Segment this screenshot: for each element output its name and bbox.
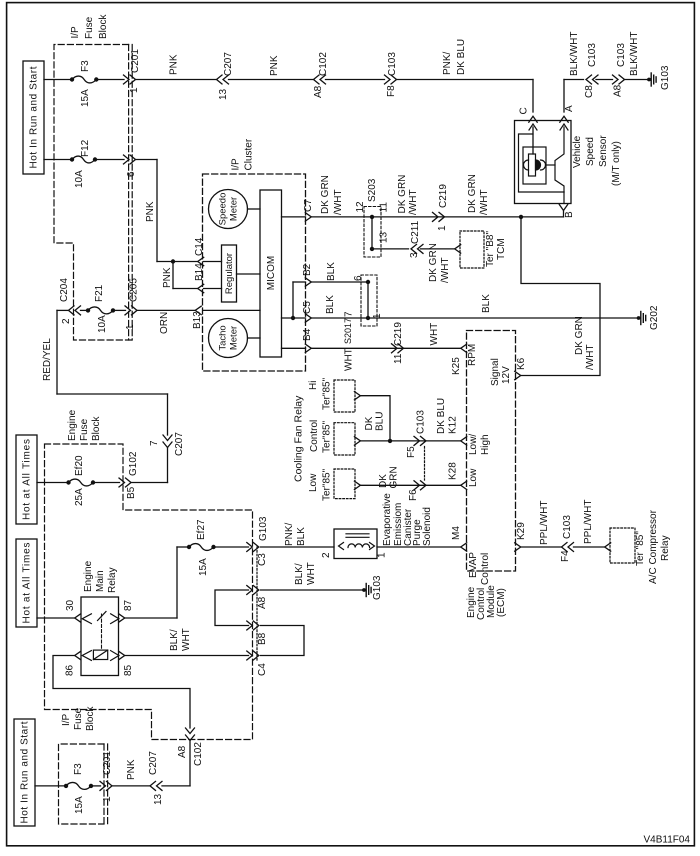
svg-text:BLU: BLU <box>375 412 386 431</box>
svg-text:Fuse: Fuse <box>84 16 95 39</box>
svg-text:RED/YEL: RED/YEL <box>42 338 53 381</box>
wire: S203 to C211 <box>372 248 409 250</box>
svg-text:WHT: WHT <box>181 628 192 651</box>
svg-text:PPL/WHT: PPL/WHT <box>539 501 550 545</box>
svg-text:87: 87 <box>123 599 134 611</box>
node: Hot In Run and Start (bottom feed) <box>14 719 35 826</box>
svg-text:C4: C4 <box>257 663 268 676</box>
svg-text:Relay: Relay <box>660 535 671 561</box>
svg-text:10A: 10A <box>74 170 85 188</box>
speedo meter <box>209 190 248 229</box>
wire tacho to MICOM <box>248 337 261 339</box>
svg-text:DK GRN: DK GRN <box>397 175 408 214</box>
wire relay 86 to C102 A8 riser <box>53 656 190 729</box>
wire: C8 to A8 link <box>596 79 613 81</box>
svg-text:13: 13 <box>218 88 229 100</box>
fuse Ef27 15A <box>187 545 191 549</box>
Ter 85 Low box <box>334 469 355 499</box>
svg-text:C102: C102 <box>318 52 329 76</box>
svg-text:C201: C201 <box>102 751 113 775</box>
connector G103 pin C3 <box>247 543 253 552</box>
svg-text:G103: G103 <box>660 65 671 90</box>
VSS pin B drop <box>563 211 565 217</box>
VSS internals <box>529 124 537 130</box>
pin arrow into A/C compressor relay <box>605 543 611 551</box>
svg-text:BLK/: BLK/ <box>294 563 305 585</box>
svg-text:B8: B8 <box>257 632 268 645</box>
svg-text:B5: B5 <box>126 486 137 499</box>
svg-text:1: 1 <box>437 225 448 231</box>
svg-text:F12: F12 <box>80 139 91 157</box>
connector C102 pin A8 (vertical) <box>186 728 195 734</box>
svg-text:C: C <box>519 107 530 114</box>
Engine Fuse Block boundary <box>45 444 253 740</box>
svg-text:B14: B14 <box>194 263 205 281</box>
svg-text:BLK: BLK <box>296 527 307 546</box>
svg-text:I/P: I/P <box>231 158 242 171</box>
svg-text:K25: K25 <box>451 357 462 375</box>
svg-text:Speedo: Speedo <box>218 193 229 226</box>
svg-text:/WHT: /WHT <box>440 257 451 283</box>
pin arrow into TCM <box>455 245 461 253</box>
wire: BLK/WHT to ground <box>625 79 650 81</box>
component-side dotted line C3..C4 <box>256 547 258 660</box>
svg-text:Hot at All Times: Hot at All Times <box>22 543 33 624</box>
svg-text:MICOM: MICOM <box>266 256 277 290</box>
svg-text:High: High <box>480 434 491 455</box>
svg-text:A: A <box>564 105 575 112</box>
svg-text:Low/: Low/ <box>468 434 479 455</box>
MICOM <box>260 190 282 357</box>
pin M4 arrow into ECM <box>461 543 467 551</box>
wire to riser <box>162 785 190 787</box>
wire regulator to MICOM <box>237 273 261 275</box>
wire Hot to Ef20 <box>37 482 69 484</box>
svg-text:F3: F3 <box>80 60 91 72</box>
svg-text:12V: 12V <box>501 366 512 384</box>
svg-text:Sensor: Sensor <box>598 135 609 167</box>
svg-text:15A: 15A <box>80 89 91 107</box>
svg-text:DK BLU: DK BLU <box>456 39 467 75</box>
wire: Hot to fuse F3 <box>44 79 72 81</box>
svg-text:BLK: BLK <box>481 294 492 313</box>
svg-text:DK: DK <box>364 416 375 430</box>
svg-text:B2: B2 <box>302 263 313 276</box>
svg-text:12: 12 <box>355 201 366 213</box>
svg-text:1: 1 <box>129 87 140 93</box>
svg-text:G103: G103 <box>258 516 269 541</box>
wire Hot to fuse F3 (bottom) <box>35 785 66 787</box>
svg-text:Block: Block <box>85 706 96 731</box>
svg-text:C3: C3 <box>257 553 268 566</box>
A/C compressor relay box <box>610 528 635 563</box>
wire MICOM to pin C7 <box>282 216 306 218</box>
connector G102 pin B5 <box>93 482 120 484</box>
ground G103 (mid) <box>362 588 366 592</box>
svg-text:WHT: WHT <box>429 323 440 346</box>
svg-text:Tacho: Tacho <box>218 325 229 350</box>
svg-text:K12: K12 <box>448 416 459 434</box>
svg-text:Fuse: Fuse <box>73 707 84 730</box>
svg-text:WHT: WHT <box>306 562 317 585</box>
engine main relay box <box>81 597 119 676</box>
wire: F3 to C201 <box>96 79 124 81</box>
wire speedo to MICOM <box>248 208 261 210</box>
svg-text:TCM: TCM <box>496 238 507 260</box>
svg-text:F3: F3 <box>73 763 84 775</box>
svg-text:BLK/: BLK/ <box>169 629 180 651</box>
connector C207 pin 13 (bottom) <box>150 781 156 790</box>
node: Hot at All Times (relay feed) <box>16 539 37 627</box>
fuse F12 10A <box>70 157 74 161</box>
connector C201 pin 6 <box>124 155 130 164</box>
relay pin 86 <box>75 651 81 659</box>
wire DK BLU Hi <box>360 396 390 441</box>
junction: PNK split <box>171 259 175 263</box>
wire RED/YEL horizontal <box>57 393 168 395</box>
svg-text:DK GRN: DK GRN <box>467 174 478 213</box>
wire: DK GRN/WHT to TCM <box>421 248 455 250</box>
svg-text:RPM: RPM <box>467 344 478 366</box>
svg-text:Hi: Hi <box>308 381 319 390</box>
Ter 85 Hi box <box>334 380 355 412</box>
svg-text:Low: Low <box>308 473 319 492</box>
svg-text:A/C Compressor: A/C Compressor <box>648 509 659 584</box>
svg-text:Control: Control <box>480 553 491 585</box>
svg-text:C103: C103 <box>416 410 427 434</box>
svg-text:Cooling Fan Relay: Cooling Fan Relay <box>293 395 305 482</box>
svg-text:Cluster: Cluster <box>244 138 255 170</box>
wire to C207 pin 7 riser <box>131 482 168 484</box>
splice S203 <box>364 207 381 258</box>
connector pin C4 <box>247 651 253 660</box>
svg-text:C207: C207 <box>148 751 159 775</box>
pin B2 arrow and wire BLK <box>293 281 306 283</box>
svg-text:11: 11 <box>379 202 390 213</box>
regulator <box>222 245 237 302</box>
I/P Fuse Block (top) boundary <box>54 45 132 341</box>
svg-text:25A: 25A <box>74 488 85 506</box>
svg-text:Ter"85": Ter"85" <box>322 420 333 453</box>
svg-text:10A: 10A <box>97 315 108 333</box>
relay coil <box>82 651 91 661</box>
svg-text:C103: C103 <box>562 515 573 539</box>
wire DK GRN/WHT 12V signal to K6 <box>521 217 600 376</box>
wire DK GRN/WHT to VSS pin B <box>311 216 563 218</box>
svg-text:C8: C8 <box>584 85 595 98</box>
relay pin 30 <box>75 614 81 622</box>
svg-text:Fuse: Fuse <box>79 418 90 441</box>
svg-text:6: 6 <box>353 275 364 281</box>
svg-text:Speed: Speed <box>585 137 596 166</box>
svg-text:DK: DK <box>378 474 389 488</box>
svg-text:1: 1 <box>372 313 383 319</box>
svg-text:Solenoid: Solenoid <box>422 507 433 546</box>
wire BLK/WHT relay 85 to C4 <box>125 655 249 657</box>
wire DK GRN to K28 <box>360 484 460 486</box>
svg-text:C103: C103 <box>587 43 598 67</box>
svg-text:Block: Block <box>98 14 109 39</box>
ECM box <box>467 331 516 572</box>
svg-text:/WHT: /WHT <box>585 344 596 370</box>
svg-text:BLK: BLK <box>325 295 336 314</box>
svg-text:C204: C204 <box>59 278 70 302</box>
Ter 85 mid box <box>334 423 355 455</box>
svg-text:Meter: Meter <box>229 197 240 221</box>
B2 tap inside cluster <box>292 282 294 318</box>
fuse F3 15A <box>70 77 74 81</box>
svg-text:Ter"85": Ter"85" <box>322 377 333 410</box>
connector C103 pin F6 <box>414 481 420 490</box>
svg-text:Vehicle: Vehicle <box>572 135 583 168</box>
connector C201 pin 1 <box>124 75 130 84</box>
svg-text:WHT: WHT <box>344 348 355 371</box>
wire to M4 <box>377 546 461 548</box>
svg-text:BLK: BLK <box>326 262 337 281</box>
svg-text:15A: 15A <box>198 558 209 576</box>
connector pin B8 <box>247 621 253 630</box>
wire BLK/WHT A8 to ground G103 <box>261 589 365 591</box>
svg-text:C205: C205 <box>129 278 140 302</box>
relay pin 85 <box>119 651 125 659</box>
svg-text:PNK: PNK <box>169 54 180 75</box>
connector C103 pin A8 <box>613 75 619 84</box>
svg-text:Main: Main <box>95 570 106 592</box>
svg-text:Ef20: Ef20 <box>74 455 85 476</box>
connector C204 pin 2 <box>69 306 75 315</box>
svg-text:2: 2 <box>61 318 72 324</box>
junction to ECM K6 path <box>519 215 523 219</box>
pin B13 arrow into cluster <box>195 306 201 314</box>
svg-text:Engine: Engine <box>67 409 78 441</box>
TCM box <box>460 231 484 268</box>
connector C102 pin A8 <box>314 75 320 84</box>
svg-text:Evaporative: Evaporative <box>382 493 393 546</box>
wire PNK to C207 <box>112 785 150 787</box>
ground G202 <box>637 316 641 320</box>
svg-text:C219: C219 <box>393 322 404 346</box>
svg-text:PNK: PNK <box>269 55 280 76</box>
connector C103 pin F8 <box>385 75 391 84</box>
svg-text:1: 1 <box>125 324 136 330</box>
svg-text:Ter "85": Ter "85" <box>635 531 646 566</box>
splice S2017 <box>361 275 377 326</box>
svg-text:2: 2 <box>321 552 332 558</box>
connector C207 pin 13 <box>217 75 223 84</box>
pin C7 arrow <box>305 213 311 221</box>
svg-text:C201: C201 <box>130 49 141 73</box>
svg-text:F5: F5 <box>406 446 417 458</box>
svg-text:B: B <box>564 211 575 218</box>
svg-text:BLK/WHT: BLK/WHT <box>569 32 580 76</box>
svg-text:PNK: PNK <box>126 759 137 780</box>
svg-text:3: 3 <box>409 252 420 258</box>
wire: PNK/DK BLU to VSS pin C <box>397 79 534 81</box>
svg-text:6: 6 <box>126 171 137 177</box>
connector-side dotted line F5-F6 <box>424 447 426 481</box>
svg-text:Low: Low <box>468 468 479 487</box>
connector C211 pin 3 <box>411 244 417 253</box>
svg-text:C5: C5 <box>302 301 313 314</box>
wire: F12 to C201 pin 6 <box>95 159 124 161</box>
svg-text:M4: M4 <box>451 526 462 540</box>
I/P Cluster box <box>203 174 306 371</box>
connector pin A8 <box>247 586 253 595</box>
I/P Fuse Block (bottom) <box>59 744 105 824</box>
svg-text:(ECM): (ECM) <box>496 588 507 617</box>
tacho meter <box>209 319 248 358</box>
svg-text:DK GRN: DK GRN <box>428 243 439 282</box>
svg-text:Hot In Run and Start: Hot In Run and Start <box>29 66 40 168</box>
svg-text:7: 7 <box>344 311 355 317</box>
svg-text:B4: B4 <box>302 328 313 341</box>
pin K6 arrow into ECM <box>515 371 521 379</box>
ground G103 (top right) <box>647 78 651 82</box>
svg-text:Meter: Meter <box>229 326 240 350</box>
svg-text:C207: C207 <box>223 52 234 76</box>
svg-text:GRN: GRN <box>389 466 400 488</box>
svg-text:PNK/: PNK/ <box>284 522 295 546</box>
svg-text:Ter "B8": Ter "B8" <box>485 231 496 267</box>
svg-text:K6: K6 <box>516 357 527 370</box>
relay contact <box>82 614 91 624</box>
wire A8 left link <box>215 590 249 626</box>
svg-text:A8: A8 <box>257 596 268 609</box>
svg-text:A8: A8 <box>177 745 188 758</box>
svg-text:13: 13 <box>153 793 164 805</box>
wire PNK/BLK to EVAP solenoid <box>261 546 335 548</box>
wire: ORN to cluster B13 <box>137 309 196 311</box>
svg-text:85: 85 <box>123 664 134 676</box>
svg-text:S203: S203 <box>367 178 378 202</box>
fuse F3 15A (bottom) <box>64 784 68 788</box>
svg-text:A8: A8 <box>313 85 324 98</box>
vehicle speed sensor box <box>515 121 572 204</box>
node: Hot at All Times (Ef20 feed) <box>16 435 37 524</box>
svg-text:F8: F8 <box>386 85 397 97</box>
svg-text:G102: G102 <box>128 451 139 476</box>
pin K25 arrow into ECM <box>461 344 467 352</box>
svg-text:PNK: PNK <box>162 267 173 288</box>
svg-text:B13: B13 <box>192 311 203 329</box>
svg-text:Control: Control <box>309 420 320 452</box>
wire: PNK drop to cluster B14/C14 <box>136 159 158 161</box>
svg-text:C207: C207 <box>174 432 185 456</box>
svg-text:F6: F6 <box>408 489 419 501</box>
svg-text:F21: F21 <box>94 284 105 302</box>
svg-text:Hot at All Times: Hot at All Times <box>22 439 33 520</box>
svg-text:V4B11F04: V4B11F04 <box>643 835 690 846</box>
wire PPL/WHT to F4 <box>521 546 562 548</box>
wire: C102 to C103 <box>326 79 385 81</box>
connector C201 pin 1 (bottom) <box>91 785 101 787</box>
svg-text:EVAP: EVAP <box>468 552 479 578</box>
svg-text:Block: Block <box>91 416 102 441</box>
connector C103 pin F5 <box>414 436 420 445</box>
svg-text:K29: K29 <box>516 522 527 540</box>
svg-text:86: 86 <box>65 664 76 676</box>
fuse Ef20 25A <box>66 480 70 484</box>
svg-text:PPL/WHT: PPL/WHT <box>583 500 594 544</box>
wire B13 to MICOM <box>204 309 261 311</box>
svg-text:Ter"85": Ter"85" <box>322 468 333 501</box>
connector C207 pin 7 (vertical) <box>163 435 172 441</box>
svg-text:I/P: I/P <box>61 713 72 726</box>
svg-text:Relay: Relay <box>107 567 118 593</box>
svg-text:C7: C7 <box>303 199 314 212</box>
svg-text:A8: A8 <box>613 84 624 97</box>
wire: Hot to fuse F12 <box>44 159 72 161</box>
svg-text:C103: C103 <box>387 52 398 76</box>
svg-text:(M/T only): (M/T only) <box>611 141 622 186</box>
svg-text:15A: 15A <box>74 796 85 814</box>
svg-text:DK GRN: DK GRN <box>320 175 331 214</box>
svg-text:I/P: I/P <box>70 26 81 39</box>
svg-text:C219: C219 <box>438 184 449 208</box>
engine main relay pin 87 wire to Ef27 <box>125 617 177 619</box>
svg-text:/WHT: /WHT <box>408 189 419 215</box>
wire DK BLU to K12 <box>360 440 460 442</box>
svg-text:K28: K28 <box>448 462 459 480</box>
wire: PNK C201 to C207 <box>136 79 217 81</box>
svg-text:PNK/: PNK/ <box>442 51 453 75</box>
wire: PNK C207 to C102 <box>229 79 314 81</box>
pin K28 arrow into ECM <box>461 481 467 489</box>
svg-text:G202: G202 <box>649 305 660 330</box>
svg-text:30: 30 <box>65 599 76 611</box>
EVAP canister purge solenoid <box>334 529 377 559</box>
svg-text:BLK/WHT: BLK/WHT <box>629 32 640 76</box>
svg-text:7: 7 <box>149 440 160 446</box>
relay pin 87 <box>119 614 125 622</box>
wire: RED/YEL riser to C204 <box>56 310 58 394</box>
wire B8 right link <box>261 626 305 656</box>
fuse F21 10A <box>86 308 90 312</box>
svg-text:S2017: S2017 <box>343 318 353 344</box>
wire Hot to relay pin 30 <box>37 617 75 619</box>
svg-text:C14: C14 <box>194 237 205 256</box>
svg-text:Engine: Engine <box>83 560 94 592</box>
pin B4 arrow and wire WHT <box>282 347 306 349</box>
VSS pin C chevron <box>529 116 537 122</box>
svg-text:Regulator: Regulator <box>224 253 235 294</box>
svg-text:DK BLU: DK BLU <box>436 398 447 434</box>
svg-text:11: 11 <box>393 353 404 364</box>
pin K29 arrow out of ECM <box>515 543 521 551</box>
svg-text:PNK: PNK <box>145 201 156 222</box>
wire to C3 <box>214 546 249 548</box>
pin C5 arrow and wire BLK to G202 <box>282 317 306 319</box>
svg-text:1: 1 <box>102 796 113 802</box>
wire PPL/WHT to A/C relay <box>574 546 605 548</box>
connector C219 pin 11 <box>392 344 398 353</box>
svg-text:DK GRN: DK GRN <box>574 316 585 355</box>
connector C205 pin 1 <box>113 309 126 311</box>
connector C103 pin F4 <box>562 543 568 552</box>
svg-text:C211: C211 <box>410 220 421 244</box>
pin C14/B14 arrows into cluster <box>198 257 204 265</box>
svg-text:Ef27: Ef27 <box>196 519 207 540</box>
svg-text:C103: C103 <box>616 43 627 67</box>
svg-text:F4: F4 <box>560 550 571 562</box>
svg-text:/WHT: /WHT <box>479 189 490 215</box>
pin K12 arrow into ECM <box>461 437 467 445</box>
svg-text:/WHT: /WHT <box>333 189 344 215</box>
svg-text:Signal: Signal <box>490 358 501 386</box>
connector C103 pin C8 <box>586 75 592 84</box>
svg-text:C102: C102 <box>193 742 204 766</box>
VSS pin A chevron <box>560 116 568 122</box>
